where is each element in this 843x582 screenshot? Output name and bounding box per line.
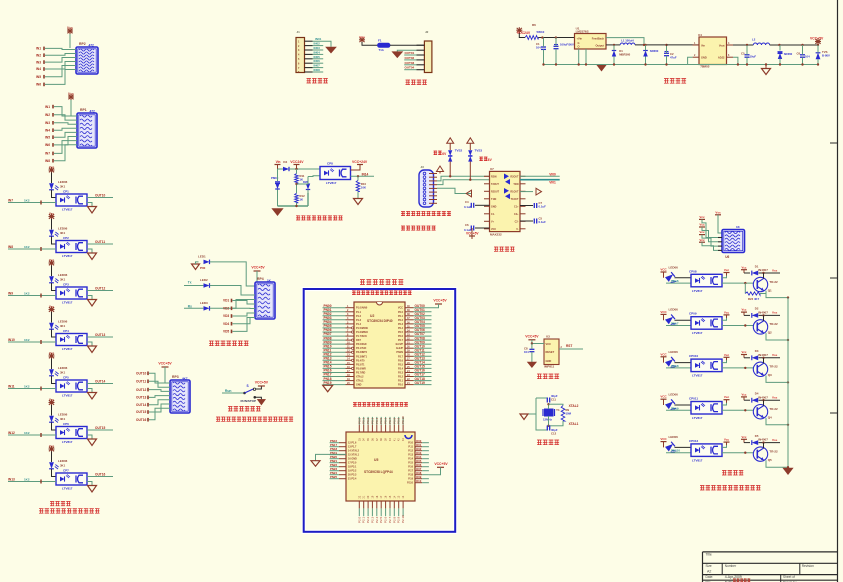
capacitor C5b <box>520 217 546 225</box>
wire <box>536 397 548 399</box>
svg-text:CP011: CP011 <box>689 397 698 401</box>
svg-text:LED1: LED1 <box>198 255 206 259</box>
wire <box>36 47 76 51</box>
wire <box>404 61 424 65</box>
power Vcc (RP5 row 4) <box>699 238 705 245</box>
wire <box>323 373 365 379</box>
svg-text:S: S <box>247 384 249 388</box>
svg-text:R2OUT: R2OUT <box>491 190 500 193</box>
svg-text:LED06: LED06 <box>58 273 68 277</box>
wire <box>398 369 432 375</box>
svg-text:R2OUT: R2OUT <box>510 175 519 178</box>
svg-text:P3.1/TxD: P3.1/TxD <box>356 347 367 350</box>
svg-text:D4: D4 <box>283 160 287 164</box>
MCU area frame <box>304 289 456 532</box>
wire <box>397 417 401 441</box>
wire <box>51 359 53 370</box>
svg-text:ADJ2: ADJ2 <box>718 56 725 60</box>
svg-text:XTAL2: XTAL2 <box>356 376 364 379</box>
svg-text:R6: R6 <box>532 23 536 27</box>
wire <box>675 277 692 279</box>
wire <box>675 319 692 321</box>
wire <box>330 443 357 449</box>
svg-text:VCC+5V: VCC+5V <box>433 298 447 302</box>
wire <box>702 219 722 237</box>
resistor network RP1 <box>77 108 97 148</box>
svg-text:Vss: Vss <box>715 210 721 214</box>
svg-text:LTV817: LTV817 <box>62 440 73 444</box>
wire VI01 <box>520 180 560 185</box>
wire <box>330 467 357 473</box>
svg-text:RUN/STOP: RUN/STOP <box>241 399 256 403</box>
svg-text:Revision: Revision <box>802 564 814 568</box>
wire <box>362 495 366 523</box>
svg-text:Vss: Vss <box>772 311 778 315</box>
svg-text:DW: DW <box>303 180 308 184</box>
wire <box>766 460 789 468</box>
svg-text:LED06: LED06 <box>669 308 679 312</box>
svg-text:EA/VP: EA/VP <box>396 343 404 346</box>
svg-text:P2.6: P2.6 <box>398 359 404 362</box>
optocoupler CP6 <box>56 422 87 444</box>
wire <box>579 49 586 65</box>
svg-text:P1.6/MISO: P1.6/MISO <box>356 331 368 334</box>
svg-text:3K1: 3K1 <box>60 464 66 468</box>
wire <box>429 191 437 193</box>
wire <box>136 388 170 392</box>
switch lower contact <box>241 396 262 403</box>
svg-text:VCC: VCC <box>660 395 667 399</box>
svg-text:P2.6: P2.6 <box>384 516 388 523</box>
wire <box>45 137 77 148</box>
svg-text:P1.5/MOSI: P1.5/MOSI <box>356 327 368 330</box>
optocoupler CP7 <box>56 469 87 491</box>
svg-text:VCC24V: VCC24V <box>290 160 304 164</box>
svg-text:LED06: LED06 <box>58 227 68 231</box>
crystal Y1 <box>543 408 560 422</box>
wire <box>45 141 77 156</box>
wire <box>87 379 113 383</box>
wire <box>759 438 781 444</box>
svg-text:IN05: IN05 <box>314 55 321 59</box>
svg-text:U7: U7 <box>490 167 494 171</box>
text switch note <box>216 417 293 422</box>
wire <box>763 273 765 279</box>
wire <box>666 367 691 369</box>
capacitor C1 <box>536 38 546 65</box>
svg-text:P2.1: P2.1 <box>398 380 404 383</box>
svg-text:Vcc: Vcc <box>724 268 730 272</box>
wire <box>437 188 472 193</box>
svg-text:R1OUT: R1OUT <box>510 190 519 193</box>
power port (DB9 top) <box>437 166 444 174</box>
wire <box>323 312 362 318</box>
LED D3 <box>200 301 210 311</box>
MCU U2 STC89C54 DIP40 <box>354 302 405 388</box>
wire <box>398 308 432 314</box>
wire <box>366 495 370 523</box>
resistor R6 <box>525 36 538 40</box>
wire <box>404 56 424 60</box>
text RS232 caption line2 <box>401 226 436 231</box>
svg-text:12MHz: 12MHz <box>543 418 552 422</box>
diode D2 IN4007 <box>752 307 768 318</box>
power VCC+5V (RP4) <box>251 266 265 291</box>
svg-text:OUT14: OUT14 <box>95 379 106 383</box>
ground (JP2) <box>392 50 424 58</box>
power VCC (RP1) <box>68 92 74 116</box>
ground <box>87 435 97 446</box>
svg-text:Vcc: Vcc <box>49 351 55 355</box>
svg-text:VCC: VCC <box>660 310 667 314</box>
wire <box>667 44 700 46</box>
svg-text:C12: C12 <box>551 432 557 436</box>
svg-text:PN110: PN110 <box>671 449 680 453</box>
LED diode LED02 <box>49 227 68 237</box>
svg-text:R22: R22 <box>748 297 754 301</box>
text RS232 caption line1 <box>401 211 451 216</box>
svg-text:L1 100uH: L1 100uH <box>621 39 633 43</box>
wire <box>759 396 781 402</box>
svg-text:TVS2: TVS2 <box>455 149 463 153</box>
svg-text:C4: C4 <box>465 200 469 204</box>
wire <box>289 168 320 170</box>
svg-text:RST: RST <box>356 339 361 342</box>
svg-text:U3: U3 <box>546 335 550 339</box>
svg-text:P3.3/INT1: P3.3/INT1 <box>356 355 368 358</box>
svg-text:CP010: CP010 <box>689 354 699 358</box>
svg-text:1K2: 1K2 <box>24 384 30 388</box>
wire <box>536 398 548 430</box>
MAX232 driver sym 1 <box>504 174 509 180</box>
IC U7 MAX232 <box>490 167 521 237</box>
svg-text:Vcc: Vcc <box>49 212 55 216</box>
svg-text:IN8: IN8 <box>8 245 13 249</box>
svg-text:C1+: C1+ <box>514 205 519 208</box>
resistor network RP5 <box>722 225 745 259</box>
DB9 pin circle <box>423 183 426 186</box>
svg-text:C11: C11 <box>551 398 556 402</box>
TVS diode P6KE <box>271 169 280 206</box>
svg-text:C5: C5 <box>741 52 745 56</box>
wire <box>666 282 691 284</box>
svg-text:CP7: CP7 <box>63 469 69 473</box>
svg-text:CP4: CP4 <box>63 329 69 333</box>
IC U4 78M05 <box>694 33 730 69</box>
wire <box>401 495 405 523</box>
ground (crystal) <box>520 414 536 420</box>
wire <box>759 353 781 359</box>
svg-text:Q5: Q5 <box>768 458 772 462</box>
svg-text:OUT11: OUT11 <box>136 380 146 384</box>
svg-text:P3.4/T0: P3.4/T0 <box>356 359 365 362</box>
text user note 2 <box>700 485 761 490</box>
svg-text:100uF/50V: 100uF/50V <box>560 43 574 47</box>
optocoupler CP4 <box>56 329 87 351</box>
svg-text:LTV817: LTV817 <box>692 331 703 335</box>
svg-text:P.12: P.12 <box>408 450 413 453</box>
svg-text:LTV817: LTV817 <box>692 458 703 462</box>
svg-text:Vss: Vss <box>772 353 778 357</box>
svg-text:C2-: C2- <box>515 220 519 223</box>
wire <box>223 318 255 334</box>
svg-text:TR-22: TR-22 <box>769 407 778 411</box>
svg-text:VCC+5V: VCC+5V <box>810 36 824 40</box>
optocoupler CP09 <box>689 312 722 336</box>
text 40-pin chip title <box>352 290 412 294</box>
wire <box>375 417 379 441</box>
ground (power 2) <box>762 69 771 75</box>
svg-text:16 GND: 16 GND <box>348 458 357 461</box>
svg-text:IN8: IN8 <box>45 159 50 163</box>
wire <box>429 187 437 189</box>
DB9 pin circle <box>423 195 426 198</box>
svg-text:0.1uF: 0.1uF <box>539 205 547 209</box>
svg-text:PN19: PN19 <box>324 381 332 385</box>
wire <box>298 46 323 52</box>
wire <box>484 183 526 186</box>
wire <box>398 361 432 367</box>
power VCC+5V (MAX232) <box>466 228 479 239</box>
svg-text:Vcc: Vcc <box>49 258 55 262</box>
wire <box>52 469 57 477</box>
wire <box>330 455 357 461</box>
wire <box>210 300 255 309</box>
power VCC24V input <box>516 23 544 38</box>
svg-text:0.1uF: 0.1uF <box>539 220 547 224</box>
DB9 pin circle <box>423 172 426 175</box>
svg-text:T2IN: T2IN <box>513 183 518 186</box>
TVS diode TVS3 <box>467 138 483 180</box>
text crystal circuit <box>537 440 559 445</box>
svg-text:Vcc: Vcc <box>699 223 705 227</box>
svg-text:13 P1.7: 13 P1.7 <box>348 446 357 449</box>
text input port <box>307 78 328 83</box>
diode D4 <box>283 167 289 171</box>
svg-text:Output: Output <box>596 44 605 48</box>
LED D2 <box>200 278 210 288</box>
svg-text:OUT19: OUT19 <box>415 381 426 385</box>
wire <box>323 332 368 338</box>
power Vcc (RP5 row 3) <box>699 230 705 237</box>
wire <box>396 340 432 346</box>
svg-text:P2.9: P2.9 <box>397 516 401 523</box>
wire <box>408 439 429 445</box>
wire bottom bus <box>542 63 687 65</box>
svg-text:CP5: CP5 <box>63 376 69 380</box>
svg-text:Vss: Vss <box>772 438 778 442</box>
power VCC channel 5 <box>49 351 55 359</box>
svg-text:OUT01: OUT01 <box>405 51 415 55</box>
wire <box>407 479 429 485</box>
svg-text:OUT12: OUT12 <box>95 286 106 290</box>
wire <box>538 36 574 38</box>
svg-text:P0.7: P0.7 <box>398 339 404 342</box>
wire <box>766 291 789 299</box>
wire <box>45 113 77 120</box>
svg-text:P.16: P.16 <box>408 466 413 469</box>
svg-text:IN4007: IN4007 <box>758 438 768 442</box>
svg-text:4K7: 4K7 <box>754 297 760 301</box>
svg-text:P0.6: P0.6 <box>384 417 388 424</box>
wire <box>298 50 323 56</box>
LED diode LED06 <box>49 413 68 423</box>
svg-text:LED3: LED3 <box>200 301 208 305</box>
text user note <box>39 508 100 513</box>
svg-text:P2.5: P2.5 <box>379 516 383 523</box>
diode D5 IN4007 <box>752 434 768 445</box>
svg-text:TR-22: TR-22 <box>769 322 778 326</box>
wire <box>401 416 405 441</box>
net Vin label <box>275 160 281 168</box>
wire <box>484 213 526 216</box>
wire <box>136 396 170 400</box>
power VCC+5V (switch) <box>255 380 269 386</box>
svg-text:LTV817: LTV817 <box>692 374 703 378</box>
svg-text:Vcc: Vcc <box>699 215 705 219</box>
svg-text:VCC: VCC <box>660 352 667 356</box>
wire <box>398 373 432 379</box>
svg-text:P2.3: P2.3 <box>398 372 404 375</box>
wire <box>8 198 56 204</box>
wire <box>531 342 544 344</box>
power Vcc (diode row) <box>741 308 747 316</box>
svg-text:IN12: IN12 <box>8 431 15 435</box>
wire <box>763 315 765 321</box>
svg-text:P2.10: P2.10 <box>401 515 405 523</box>
svg-text:1K2: 1K2 <box>24 477 30 481</box>
power VCC+5V (output) <box>810 36 824 45</box>
svg-text:STC89C58 LQFP44: STC89C58 LQFP44 <box>364 470 393 474</box>
wire <box>408 459 429 465</box>
svg-text:Vin: Vin <box>276 160 281 164</box>
wire <box>87 426 113 430</box>
LED diode out-ch4 <box>665 399 678 412</box>
optocoupler CP1 <box>56 190 87 212</box>
transistor Q1 <box>753 277 778 292</box>
svg-text:LTV817: LTV817 <box>692 416 703 420</box>
wire <box>760 293 766 295</box>
border zone tick 3 <box>830 412 838 414</box>
wire <box>398 324 432 330</box>
wire <box>45 145 77 163</box>
svg-text:P2.3: P2.3 <box>370 516 374 523</box>
wire <box>87 193 113 197</box>
svg-text:PN25: PN25 <box>330 475 337 479</box>
wire <box>357 417 361 441</box>
svg-text:LM2576S: LM2576S <box>576 30 589 34</box>
DB9 pin circle <box>423 198 426 201</box>
wire <box>51 173 53 184</box>
svg-text:472: 472 <box>89 44 95 48</box>
ground <box>87 249 97 260</box>
wire <box>298 68 323 74</box>
transistor Q3 <box>753 362 778 377</box>
svg-text:OUT15: OUT15 <box>136 410 147 414</box>
wire <box>87 240 113 244</box>
svg-text:21 P3.4: 21 P3.4 <box>348 478 357 481</box>
svg-text:OUT12: OUT12 <box>136 388 147 392</box>
LED D1 <box>198 255 210 265</box>
power VCC out-ch4 <box>660 395 667 405</box>
wire <box>36 66 76 79</box>
diode D3 IN4007 <box>752 349 768 360</box>
svg-text:SR360: SR360 <box>650 49 659 53</box>
svg-text:OUT15: OUT15 <box>95 426 106 430</box>
wire <box>398 336 432 342</box>
power Vcc (opto right) <box>722 268 730 278</box>
inductor L2 <box>752 38 770 46</box>
svg-text:IN07: IN07 <box>314 64 321 68</box>
svg-text:V-: V- <box>516 228 518 231</box>
ground (MCU U5) <box>311 454 346 466</box>
svg-text:4K7: 4K7 <box>182 377 188 381</box>
power VCC+5V (MCU U2) <box>432 298 448 307</box>
wire <box>408 475 429 481</box>
capacitor C6b <box>464 223 490 232</box>
svg-text:P0.2: P0.2 <box>398 319 404 322</box>
power Vcc (diode row) <box>741 265 747 273</box>
power VCC channel 3 <box>49 258 55 266</box>
svg-text:XTAL1: XTAL1 <box>356 380 364 383</box>
resistor R22 <box>745 292 760 301</box>
wire <box>437 175 490 181</box>
svg-text:OUT16: OUT16 <box>136 418 147 422</box>
svg-text:Vout: Vout <box>719 43 725 47</box>
DB9 pin circle <box>423 202 426 205</box>
wire <box>308 175 320 178</box>
wire <box>759 268 781 274</box>
wire <box>392 495 396 523</box>
text output port <box>406 80 427 85</box>
svg-text:Sheet of: Sheet of <box>783 575 795 579</box>
svg-text:VD5: VD5 <box>223 330 229 334</box>
svg-text:OUT13: OUT13 <box>95 333 106 337</box>
svg-text:IN4007: IN4007 <box>758 353 768 357</box>
wire <box>547 403 562 409</box>
svg-text:IN06: IN06 <box>314 59 321 63</box>
svg-text:J1: J1 <box>297 30 301 34</box>
wire <box>298 42 323 48</box>
svg-text:1K2: 1K2 <box>24 198 30 202</box>
svg-text:PN16: PN16 <box>671 279 679 283</box>
power Vcc (opto right) <box>722 395 730 405</box>
wire <box>8 338 56 344</box>
svg-text:P1.2: P1.2 <box>356 315 362 318</box>
ground arrow (LED1) <box>192 262 206 270</box>
svg-text:Vcc: Vcc <box>742 308 747 312</box>
wire <box>298 37 331 47</box>
svg-text:IN08: IN08 <box>314 68 321 72</box>
svg-text:1K2: 1K2 <box>24 431 30 435</box>
svg-text:P0.0: P0.0 <box>357 417 361 424</box>
svg-text:IN5: IN5 <box>36 75 41 79</box>
svg-text:VCC: VCC <box>660 437 667 441</box>
wire <box>323 304 368 310</box>
svg-text:P0.9: P0.9 <box>397 417 401 424</box>
wire <box>766 418 789 426</box>
svg-text:RST: RST <box>566 344 572 348</box>
wire <box>330 475 357 481</box>
LED diode LED05 <box>49 366 68 376</box>
svg-text:T1A: T1A <box>379 48 384 52</box>
svg-text:XTAL2: XTAL2 <box>569 404 579 408</box>
svg-text:RP3: RP3 <box>172 375 179 379</box>
svg-text:P2.7: P2.7 <box>398 355 404 358</box>
svg-text:VD3: VD3 <box>223 314 229 318</box>
wire <box>417 44 425 46</box>
diode TVS1 <box>816 45 830 65</box>
